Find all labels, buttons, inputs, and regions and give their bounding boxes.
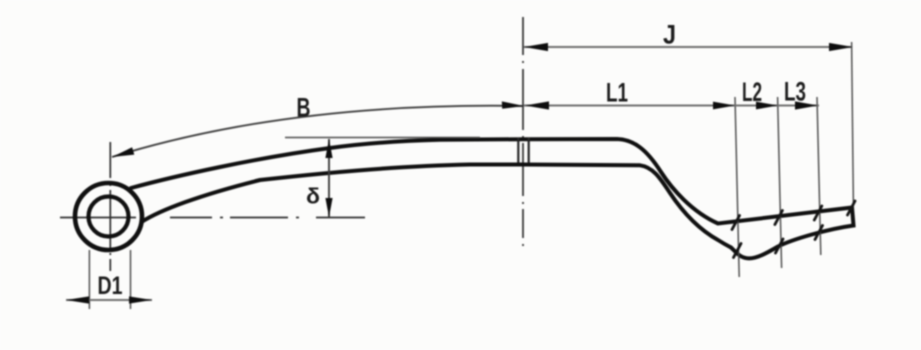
svg-text:B: B xyxy=(297,93,311,123)
svg-text:L3: L3 xyxy=(784,77,806,107)
svg-text:δ: δ xyxy=(306,184,320,209)
svg-text:L2: L2 xyxy=(742,77,762,107)
svg-text:D1: D1 xyxy=(98,272,123,300)
svg-text:J: J xyxy=(663,20,676,50)
svg-text:L1: L1 xyxy=(606,78,628,108)
